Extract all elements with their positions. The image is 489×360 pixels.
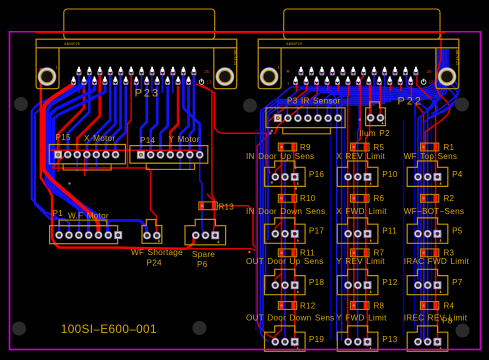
P23 mounting ring 1 <box>38 67 57 86</box>
resistor R13 outline <box>199 202 217 210</box>
P15 pad 2 <box>64 151 72 159</box>
svg-text:P23: P23 <box>135 87 161 99</box>
resistor R6 pads <box>352 195 356 202</box>
wire P23-P14 1 <box>141 86 147 156</box>
wire left blue 1 <box>32 86 78 234</box>
P12 pad 3 <box>364 282 371 289</box>
wire thick blue to P1 p5 <box>48 76 89 234</box>
P14 pad 7 <box>196 151 204 159</box>
via 6 <box>68 182 70 184</box>
svg-text:Y FWD Limit: Y FWD Limit <box>336 314 387 323</box>
wire blue col3 mid <box>401 85 428 342</box>
P3 pad 4 <box>304 114 312 122</box>
P16 pad 2 <box>281 173 289 181</box>
resistor R12 outline <box>278 302 296 310</box>
wire top edge <box>36 32 445 34</box>
wire P23-P14 4 <box>170 86 178 156</box>
svg-text:P16: P16 <box>309 170 325 179</box>
P15 pad 7 <box>112 151 120 159</box>
P13 pad 1 <box>344 338 352 346</box>
wire red stub P15 sq <box>57 158 59 172</box>
svg-text:Spare: Spare <box>192 250 215 259</box>
svg-text:P13: P13 <box>382 335 398 344</box>
wire red col3 right <box>417 76 438 347</box>
svg-text:IN Door Down Sens: IN Door Down Sens <box>246 207 325 216</box>
svg-text:P1: P1 <box>53 209 64 218</box>
resistor R13 pads <box>200 202 204 209</box>
via 1 <box>271 130 273 132</box>
svg-text:R10: R10 <box>300 194 316 203</box>
svg-text:OUT Door Down Sens: OUT Door Down Sens <box>246 314 335 323</box>
wire red R13 right <box>217 206 256 249</box>
svg-text:P3 IR Sensor: P3 IR Sensor <box>287 97 341 106</box>
wire P23-P14 6 <box>190 76 194 156</box>
wire dim blue c23 b <box>414 115 416 330</box>
svg-text:P12: P12 <box>382 278 398 287</box>
P19 pad 3 <box>291 338 298 345</box>
via 5 <box>248 251 250 253</box>
via 3 <box>359 119 361 121</box>
P14 pad 3 <box>157 151 165 159</box>
P3 pad 7 <box>334 114 342 122</box>
svg-text:P7: P7 <box>452 278 463 287</box>
svg-text:P24: P24 <box>147 259 163 268</box>
wire blue to P1 p4 <box>46 86 85 234</box>
P22 mounting ring 2 <box>438 67 457 86</box>
P1 pad 6 <box>104 231 112 239</box>
svg-text:1: 1 <box>278 66 280 70</box>
svg-text:Y REV Limit: Y REV Limit <box>336 257 385 266</box>
svg-text:AB06F25: AB06F25 <box>286 42 302 46</box>
svg-text:Y Motor: Y Motor <box>169 135 200 144</box>
P17 pad 1 <box>271 230 279 238</box>
P14 pad 2 <box>147 151 155 159</box>
connector P24 outline <box>142 220 162 244</box>
wire P22 bus 3 <box>297 49 440 118</box>
wire P22 pin red stubs <box>296 85 411 91</box>
wire red P23 right a <box>196 84 214 202</box>
wire thick red to P1 top <box>44 84 99 234</box>
svg-text:R8: R8 <box>374 301 385 310</box>
connector P14 outline <box>130 146 208 170</box>
P17 pad 2 <box>281 230 289 238</box>
P19 pad 2 <box>281 338 289 346</box>
P1 pad 2 <box>65 231 73 239</box>
P1 pad 7 <box>115 232 122 239</box>
wire red R13 to P6 <box>212 208 215 235</box>
via band end <box>294 166 297 169</box>
P11 pad 3 <box>364 230 371 237</box>
wire red col2 right chain <box>366 85 370 347</box>
wire red col1 left jog r3 <box>275 264 281 285</box>
mounting hole TR <box>455 98 469 112</box>
P5 pad 1 <box>414 230 422 238</box>
wire red col1 left jog r2 <box>275 212 281 234</box>
svg-text:IN Door Up Sens: IN Door Up Sens <box>246 152 314 161</box>
svg-text:R3: R3 <box>444 249 455 258</box>
P15 pad 3 <box>73 151 81 159</box>
connector P1 outline <box>50 220 118 244</box>
wire P23-P14 5 <box>180 86 189 156</box>
wire dim blue c12 b <box>344 110 346 300</box>
P16 pad 3 <box>291 173 298 180</box>
svg-text:M: M <box>287 69 290 73</box>
wire red col1 right chain <box>294 150 295 347</box>
svg-text:OUT Door Up Sens: OUT Door Up Sens <box>246 257 324 266</box>
resistor R10 pads <box>279 195 283 202</box>
wire red P2 a <box>370 85 372 118</box>
svg-text:P11: P11 <box>382 227 397 236</box>
P2 pad 1 <box>367 114 375 122</box>
svg-text:X FWD Limit: X FWD Limit <box>336 207 387 216</box>
wire P22 bus 6 <box>327 49 446 118</box>
resistor R8 pads <box>352 302 356 309</box>
wire red col1 left jog r4 <box>275 320 281 342</box>
via 4 <box>271 181 273 183</box>
resistor R11 pads <box>279 249 283 256</box>
via 8 <box>294 166 296 168</box>
connector P19 outline <box>265 326 306 351</box>
mounting hole BC <box>193 321 207 335</box>
wire blue col2 mid <box>358 85 360 342</box>
svg-text:R2: R2 <box>444 194 455 203</box>
wire dim blue c12 a <box>330 105 332 340</box>
svg-text:R12: R12 <box>300 301 316 310</box>
wire P23 top pin stubs <box>79 76 173 93</box>
wire blue col2b <box>338 85 341 341</box>
P18 pad 1 <box>271 281 279 289</box>
P16 pad 1 <box>271 173 279 181</box>
P3 pad 1 <box>274 115 281 122</box>
P13 pad 2 <box>354 338 362 346</box>
P14 pad 5 <box>176 151 184 159</box>
connector P3 outline <box>266 108 345 134</box>
wire top edge overlay <box>36 32 445 34</box>
wire P23-P15 1 <box>58 86 84 154</box>
P10 pad 1 <box>344 173 352 181</box>
svg-text:P6: P6 <box>197 260 208 269</box>
P14 pad 6 <box>186 151 194 159</box>
wire thick blue to P24 <box>54 86 147 235</box>
wire P22 bus 7 <box>337 49 448 118</box>
connector P10 outline <box>337 161 378 186</box>
P3 pad 5 <box>314 114 322 122</box>
wire red col3 left <box>411 85 423 342</box>
wire blue stub P15c <box>95 158 97 170</box>
resistor R12 pads <box>279 302 283 309</box>
wire P22 bus low 2 <box>263 85 390 332</box>
wire P23-P14 3 <box>161 86 168 156</box>
wire P22 pin stubs <box>296 85 401 91</box>
wire P22 bus 5 <box>317 49 444 118</box>
wire red bottom horiz <box>187 249 258 252</box>
wire blue ring arc <box>418 49 446 280</box>
mounting hole TL <box>14 97 28 111</box>
svg-text:P17: P17 <box>309 227 325 236</box>
P6 pad 1 <box>192 231 200 239</box>
svg-text:R4: R4 <box>444 301 455 310</box>
via 7 <box>295 187 297 189</box>
svg-text:AB06F25: AB06F25 <box>455 50 459 66</box>
svg-text:W.F Motor: W.F Motor <box>68 212 109 221</box>
connector P2 outline <box>366 102 386 126</box>
P8 pad 2 <box>424 338 432 346</box>
P7 pad 3 <box>434 282 441 289</box>
P11 pad 1 <box>344 230 352 238</box>
wire blue ring arc2 <box>427 49 440 110</box>
resistor R6 outline <box>351 194 369 202</box>
wire red under motors <box>52 168 156 235</box>
resistor R1 outline <box>420 143 438 151</box>
resistor R7 outline <box>351 249 369 257</box>
P23 mounting ring 2 <box>216 67 235 86</box>
P22 pins <box>294 67 434 85</box>
wire red diag P3 b <box>274 85 317 134</box>
P18 pad 2 <box>281 281 289 289</box>
svg-text:P4: P4 <box>452 170 463 179</box>
resistor R2 pads <box>422 195 426 202</box>
connector P16 outline <box>265 161 306 186</box>
wire P23 pin stubs <box>74 85 147 90</box>
P17 pad 3 <box>291 230 298 237</box>
wire blue stub P14a <box>179 159 181 170</box>
P12 pad 1 <box>344 281 352 289</box>
svg-text:IREC REV Limit: IREC REV Limit <box>404 314 468 323</box>
P8 pad 3 <box>434 338 441 345</box>
wire P23-P15 7 <box>115 86 125 154</box>
wire P23-P15 5 <box>96 86 115 154</box>
connector P17 outline <box>265 218 306 243</box>
svg-text:P19: P19 <box>309 335 325 344</box>
resistor R9 pads <box>279 143 283 150</box>
wire thick blue to P1 sq <box>50 86 108 234</box>
svg-text:R9: R9 <box>300 143 311 152</box>
P14 pad 1 <box>137 151 144 158</box>
wire red between motors <box>128 76 132 168</box>
wire red bottom to P19 <box>257 132 275 342</box>
wire red col1 left chain <box>281 150 283 308</box>
P10 pad 3 <box>364 173 371 180</box>
svg-text:25: 25 <box>204 69 209 74</box>
resistor R4 outline <box>420 302 438 310</box>
P5 pad 3 <box>434 230 441 237</box>
svg-text:1: 1 <box>287 82 289 86</box>
svg-text:25: 25 <box>426 69 431 74</box>
wire P22 bus 2 <box>287 49 438 118</box>
wire dim blue c23 a <box>403 120 405 335</box>
svg-text:R11: R11 <box>300 249 315 258</box>
wire P22 bus 1 <box>278 49 436 118</box>
svg-text:P10: P10 <box>382 170 398 179</box>
resistor R4 pads <box>422 302 426 309</box>
svg-text:R6: R6 <box>374 194 385 203</box>
connector P8 outline <box>407 326 448 351</box>
svg-text:R1: R1 <box>444 143 455 152</box>
wire blue stub P15a <box>76 158 78 172</box>
svg-text:1: 1 <box>56 66 58 70</box>
wire blue col3b <box>421 49 443 341</box>
wire blue P14 to P6 <box>200 158 204 235</box>
P13 pad 3 <box>364 338 371 345</box>
connector P22 outline <box>258 9 459 89</box>
svg-text:P5: P5 <box>452 227 463 236</box>
resistor R10 outline <box>278 194 296 202</box>
svg-text:IRAC FWD Limit: IRAC FWD Limit <box>404 257 470 266</box>
P19 pad 1 <box>271 338 279 346</box>
resistor R2 outline <box>420 194 438 202</box>
svg-text:P18: P18 <box>309 278 325 287</box>
resistor R9 outline <box>278 143 296 151</box>
P18 pad 3 <box>291 282 298 289</box>
svg-text:Ilum P2: Ilum P2 <box>359 129 390 138</box>
P14 pad 4 <box>166 151 174 159</box>
wire blue hairpin c <box>431 78 460 114</box>
P6 pad 2 <box>202 231 210 239</box>
connector P7 outline <box>407 269 448 294</box>
wire P23-P15 3 <box>77 76 100 154</box>
via 2 <box>269 132 271 134</box>
connector P12 outline <box>337 269 378 294</box>
P15 pad 6 <box>102 151 110 159</box>
P4 pad 2 <box>424 173 432 181</box>
resistor R7 pads <box>352 249 356 256</box>
svg-text:R13: R13 <box>219 202 235 211</box>
P4 pad 1 <box>414 173 422 181</box>
P12 pad 2 <box>354 281 362 289</box>
svg-text:13: 13 <box>429 80 434 85</box>
wire P23-P15 4 <box>87 76 110 154</box>
wire red col2 left <box>347 85 350 342</box>
resistor R3 pads <box>422 249 426 256</box>
mounting hole BR <box>456 324 470 338</box>
wire P23-P14 2 <box>151 86 158 156</box>
wire red stub below P15 <box>84 158 86 176</box>
P10 pad 2 <box>354 173 362 181</box>
wire blue col2a <box>328 85 337 341</box>
svg-text:X Motor: X Motor <box>84 134 115 143</box>
svg-text:X REV Limit: X REV Limit <box>336 152 385 161</box>
P4 pad 3 <box>434 173 441 180</box>
P15 pad 1 <box>55 151 62 158</box>
svg-text:WF−BOT−Sens: WF−BOT−Sens <box>404 207 465 216</box>
svg-text:P22: P22 <box>398 95 424 107</box>
wire P23-P15 6 <box>106 76 121 154</box>
svg-text:13: 13 <box>207 80 212 85</box>
wire thick red to P1 <box>44 84 99 234</box>
P1 pad 3 <box>75 231 83 239</box>
wire red col2 Rleft <box>354 76 364 307</box>
wire P23-P15 2 <box>68 76 90 154</box>
P24 pad 1 <box>143 232 151 240</box>
svg-text:P8: P8 <box>442 316 453 325</box>
resistor R11 outline <box>278 249 296 257</box>
wire red diag under P15 <box>52 150 70 168</box>
P15 pad 5 <box>92 151 100 159</box>
wire blue hairpin a <box>428 86 457 118</box>
wire P22 bus low 1 <box>261 85 401 342</box>
P1 pad 1 <box>55 231 63 239</box>
wire red P2 b <box>379 85 381 118</box>
svg-text:WF Top Sens: WF Top Sens <box>404 152 458 161</box>
svg-text:AB06F25: AB06F25 <box>233 50 237 66</box>
P3 pad 2 <box>284 114 292 122</box>
connector P23 outline <box>36 9 237 89</box>
P7 pad 1 <box>414 281 422 289</box>
connector P18 outline <box>265 269 306 294</box>
svg-text:P14: P14 <box>140 136 156 145</box>
connector P4 outline <box>407 161 448 186</box>
P15 pad 4 <box>83 151 91 159</box>
svg-text:R7: R7 <box>374 249 385 258</box>
wire blue col3a <box>407 76 438 341</box>
wire red P6 sq up <box>207 194 214 202</box>
wire red left edge <box>41 68 194 249</box>
resistor R3 outline <box>420 249 438 257</box>
P1 pad 5 <box>95 231 103 239</box>
wire P23-P14 7 <box>183 76 199 156</box>
svg-text:1: 1 <box>63 82 65 86</box>
wire red across motors <box>40 150 200 160</box>
wire blue col3c <box>390 76 415 180</box>
P3 pad 3 <box>294 114 302 122</box>
wire red P23 right b <box>202 85 272 133</box>
P23 pins <box>72 67 212 85</box>
wire dim blue right <box>431 120 433 300</box>
mounting hole TC <box>243 99 257 113</box>
P1 pad 4 <box>85 231 93 239</box>
wire P22 bus low 3 <box>266 76 385 290</box>
connector P15 outline <box>49 145 125 171</box>
P5 pad 2 <box>424 230 432 238</box>
resistor R5 pads <box>352 143 356 150</box>
P24 pad 2 <box>153 232 161 240</box>
P2 pad 2 <box>377 114 385 122</box>
resistor R8 outline <box>351 302 369 310</box>
connector P6 outline <box>185 219 226 244</box>
svg-text:R5: R5 <box>374 143 385 152</box>
P11 pad 2 <box>354 230 362 238</box>
wire red ring wrap <box>426 34 451 145</box>
wire P22 bus 4 <box>307 49 442 118</box>
P22 mounting ring 1 <box>260 67 279 86</box>
P3 pad 6 <box>324 114 332 122</box>
svg-text:AB06F25: AB06F25 <box>64 42 80 46</box>
P7 pad 2 <box>424 281 432 289</box>
wire blue stub P15b <box>86 158 88 172</box>
wire red col1 left jog r1 <box>275 155 281 177</box>
wire left blue 2 <box>35 87 83 234</box>
resistor R5 outline <box>351 143 369 151</box>
wire P22 bus low 4 <box>268 76 374 240</box>
P8 pad 1 <box>414 338 422 346</box>
wire blue stub P14b <box>189 159 191 170</box>
wire red diag P3 a <box>266 85 307 174</box>
resistor R1 pads <box>422 143 426 150</box>
svg-text:WF Shortage: WF Shortage <box>131 248 183 257</box>
connector P13 outline <box>337 326 378 351</box>
P6 pad 3 <box>212 232 219 239</box>
wire blue hairpin b <box>431 82 458 118</box>
wire dim blue col1 left <box>255 130 257 330</box>
svg-text:P15: P15 <box>56 133 72 142</box>
connector P5 outline <box>407 218 448 243</box>
svg-text:100SI–E600–001: 100SI–E600–001 <box>61 322 157 336</box>
connector P11 outline <box>337 218 378 243</box>
mounting hole BL <box>12 322 26 336</box>
wire blue col1 mid <box>285 158 288 342</box>
